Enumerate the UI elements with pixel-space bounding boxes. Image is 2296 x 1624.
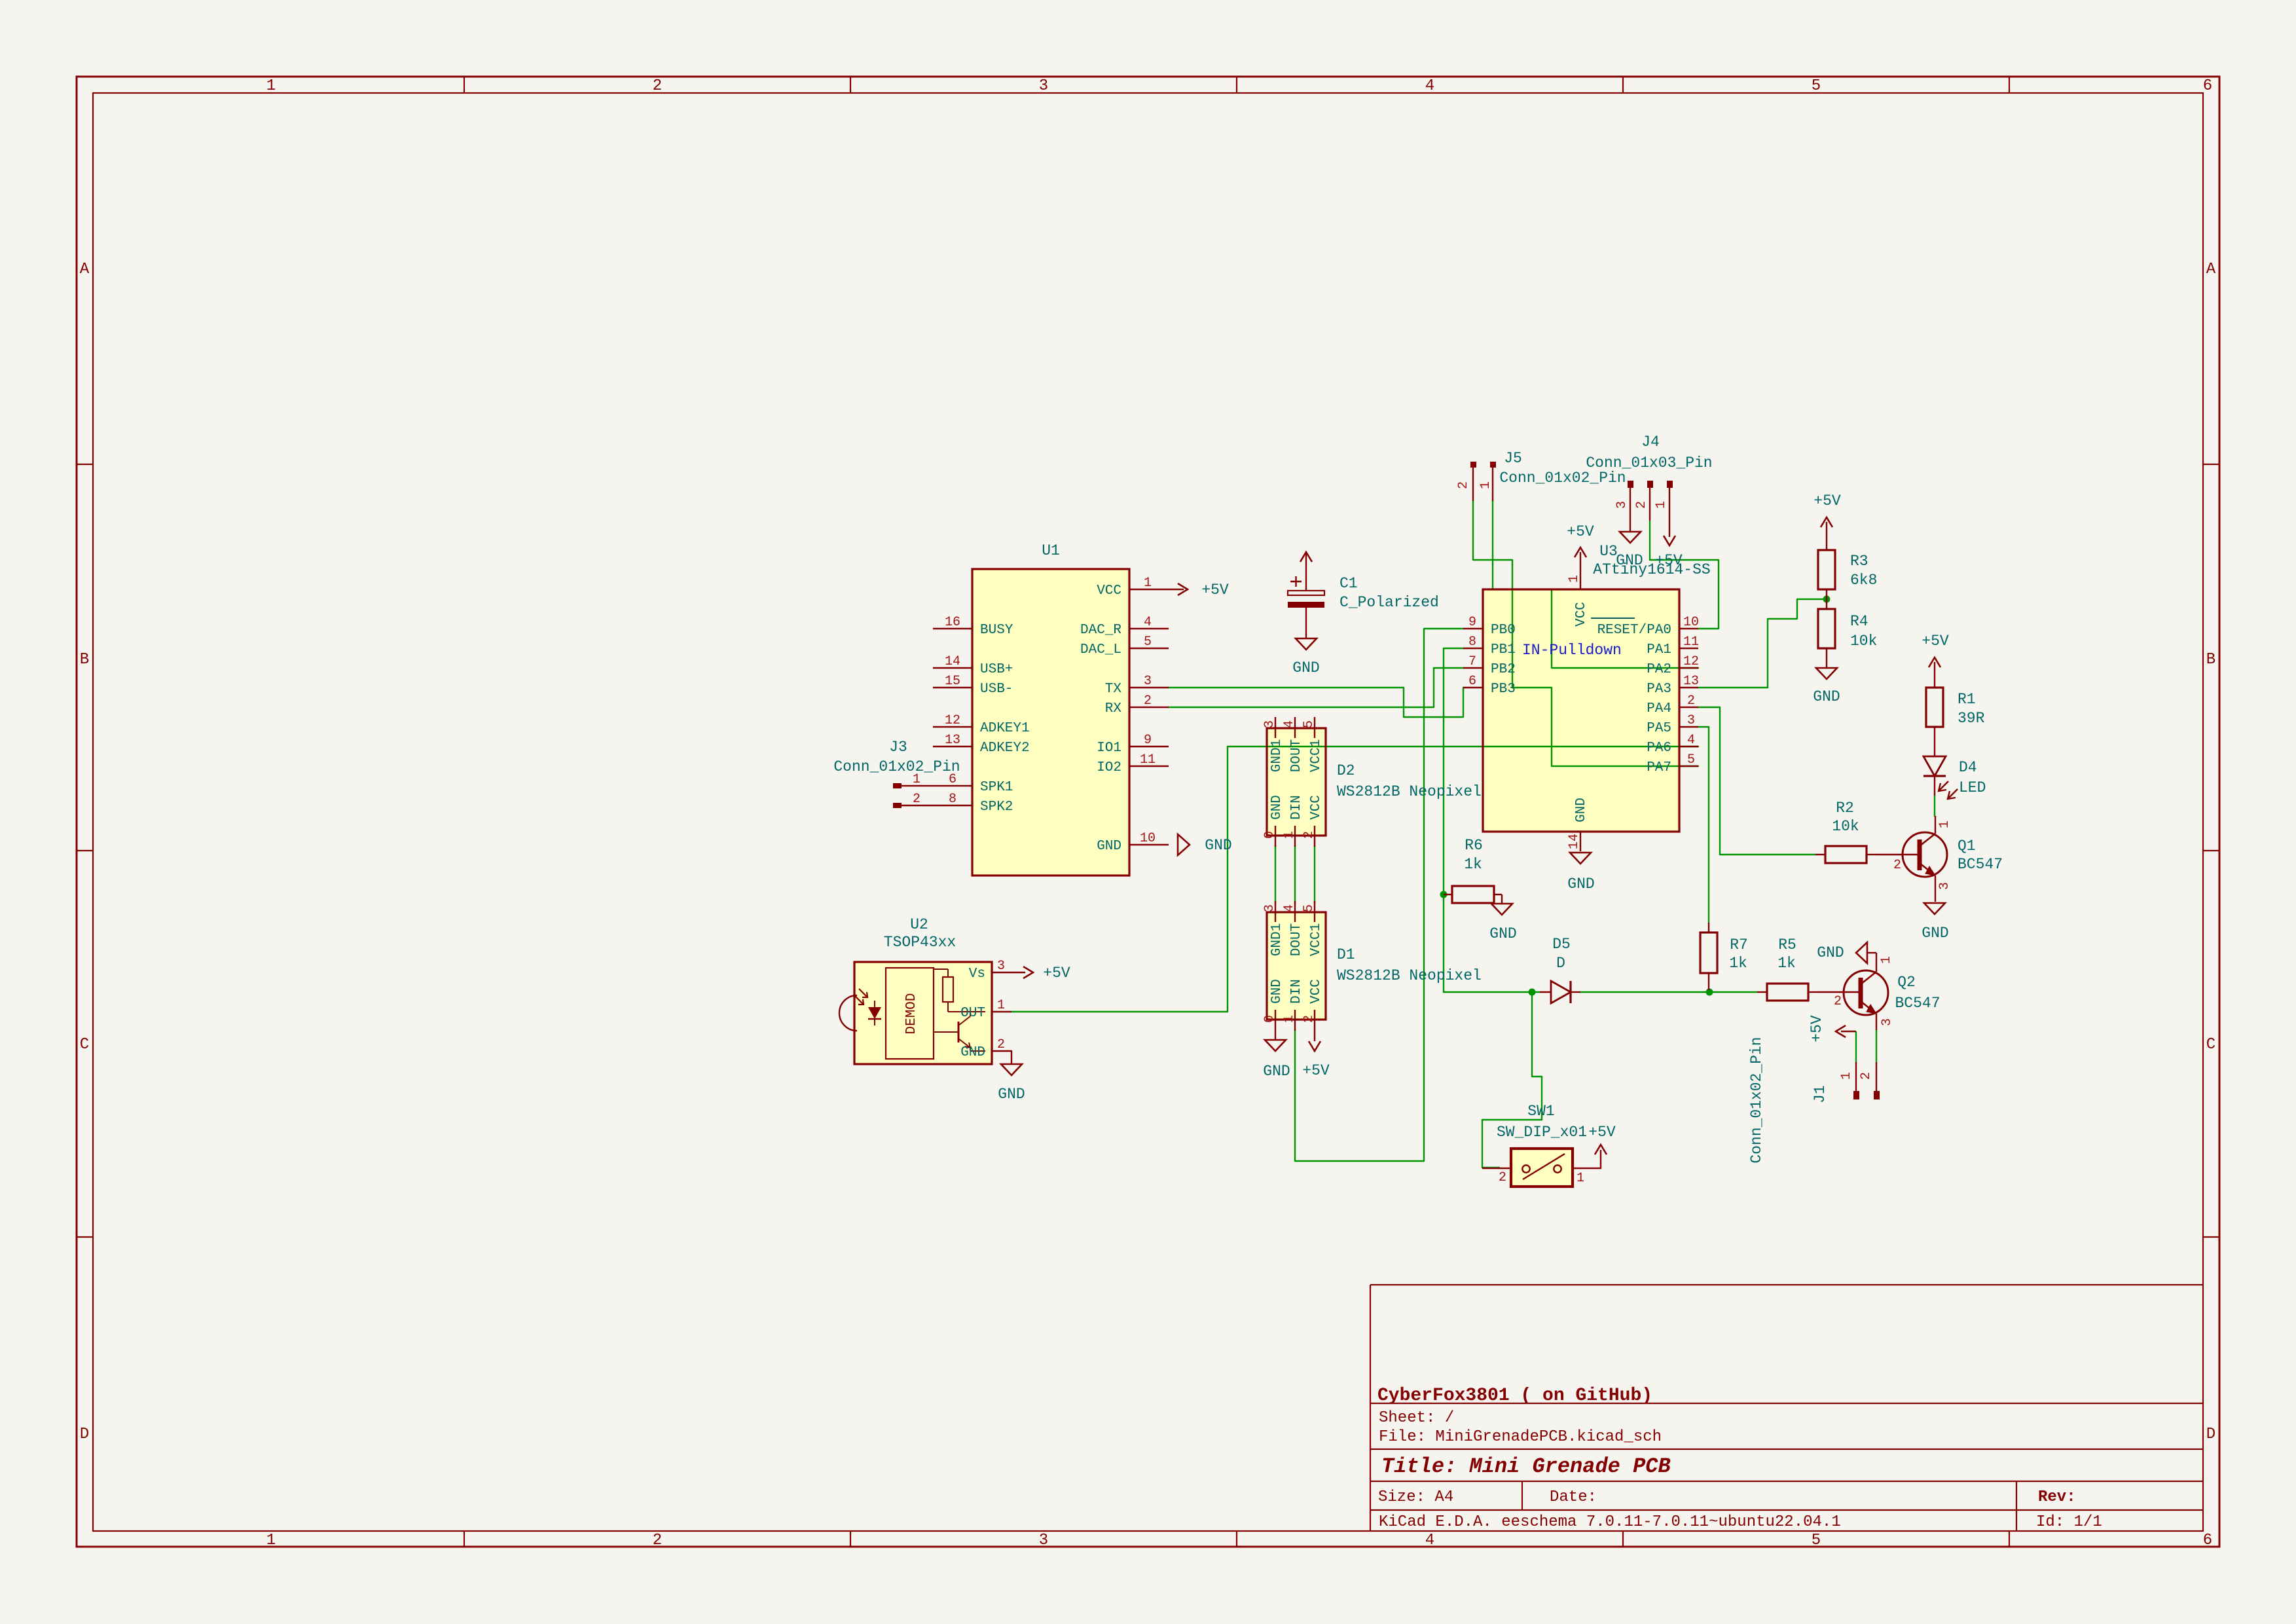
wire D2-D1 VCC link bbox=[1314, 845, 1315, 903]
svg-text:GND: GND bbox=[1567, 876, 1594, 893]
svg-text:13: 13 bbox=[1683, 674, 1699, 689]
svg-text:1: 1 bbox=[1654, 501, 1669, 509]
svg-text:8: 8 bbox=[949, 792, 957, 807]
svg-text:Date:: Date: bbox=[1550, 1488, 1597, 1506]
svg-text:3: 3 bbox=[1144, 674, 1152, 689]
svg-text:4: 4 bbox=[1282, 720, 1297, 728]
junction R7/R5 bbox=[1706, 989, 1713, 996]
svg-text:2: 2 bbox=[1859, 1072, 1874, 1080]
svg-text:39R: 39R bbox=[1958, 710, 1985, 727]
svg-text:1: 1 bbox=[1478, 481, 1493, 489]
svg-text:PB3: PB3 bbox=[1491, 682, 1516, 697]
svg-text:VCC: VCC bbox=[1574, 602, 1589, 627]
svg-text:RESET/PA0: RESET/PA0 bbox=[1597, 623, 1671, 638]
svg-text:LED: LED bbox=[1959, 779, 1986, 796]
svg-text:GND: GND bbox=[1269, 795, 1285, 820]
svg-text:IN-Pulldown: IN-Pulldown bbox=[1522, 642, 1622, 659]
svg-text:Conn_01x02_Pin: Conn_01x02_Pin bbox=[1748, 1037, 1765, 1163]
neopixel D2 bbox=[1262, 717, 1482, 847]
svg-text:WS2812B Neopixel: WS2812B Neopixel bbox=[1337, 783, 1482, 800]
svg-text:4: 4 bbox=[1425, 1532, 1434, 1549]
ground symbol below D1 bbox=[1263, 1031, 1290, 1080]
wire Q2 emitter to J1.2 bbox=[1876, 1030, 1877, 1062]
svg-text:J1: J1 bbox=[1812, 1085, 1829, 1103]
svg-text:3: 3 bbox=[1937, 882, 1952, 890]
svg-text:1: 1 bbox=[1282, 1015, 1297, 1023]
connector J1 bbox=[1748, 1037, 1880, 1163]
junction R6/PB1 bbox=[1440, 891, 1448, 898]
svg-text:+5V: +5V bbox=[1043, 965, 1070, 982]
svg-text:PB1: PB1 bbox=[1491, 642, 1516, 657]
svg-text:1: 1 bbox=[266, 1532, 276, 1549]
svg-text:Vs: Vs bbox=[969, 967, 985, 982]
wire J4.2 to U3.PA0 bbox=[1650, 521, 1719, 629]
resistor R4 bbox=[1818, 599, 1877, 668]
svg-text:TSOP43xx: TSOP43xx bbox=[884, 934, 956, 951]
svg-text:PB0: PB0 bbox=[1491, 623, 1516, 638]
svg-text:4: 4 bbox=[1687, 733, 1695, 748]
+5V symbol at J1.1 (left) bbox=[1808, 1015, 1856, 1043]
svg-text:IO2: IO2 bbox=[1097, 760, 1121, 775]
svg-text:10: 10 bbox=[1140, 831, 1156, 846]
svg-text:1: 1 bbox=[1282, 831, 1297, 839]
svg-text:2: 2 bbox=[997, 1037, 1005, 1052]
svg-text:C_Polarized: C_Polarized bbox=[1339, 594, 1439, 611]
svg-text:1: 1 bbox=[1567, 575, 1582, 583]
connector J4 bbox=[1586, 434, 1712, 537]
svg-text:DAC_R: DAC_R bbox=[1080, 623, 1121, 638]
wire J5.1 to U3.PA2 bbox=[1493, 501, 1698, 668]
svg-text:Conn_01x03_Pin: Conn_01x03_Pin bbox=[1586, 454, 1712, 471]
svg-text:PA6: PA6 bbox=[1647, 741, 1671, 756]
svg-text:PA4: PA4 bbox=[1647, 701, 1671, 716]
svg-text:GND: GND bbox=[1205, 837, 1231, 854]
neopixel D1 bbox=[1262, 901, 1482, 1031]
ground symbol at U2.GND bbox=[998, 1051, 1025, 1103]
svg-text:J3: J3 bbox=[889, 739, 907, 756]
+5V symbol at SW1.1 bbox=[1588, 1124, 1616, 1168]
svg-text:SW_DIP_x01: SW_DIP_x01 bbox=[1497, 1124, 1587, 1141]
title block bbox=[1370, 1285, 2203, 1531]
svg-text:GND: GND bbox=[1813, 688, 1840, 705]
svg-text:2: 2 bbox=[1687, 693, 1695, 709]
svg-text:+5V: +5V bbox=[1813, 492, 1841, 509]
svg-text:1: 1 bbox=[997, 998, 1005, 1013]
svg-text:3: 3 bbox=[1039, 1532, 1048, 1549]
svg-text:D1: D1 bbox=[1337, 946, 1355, 963]
svg-text:D: D bbox=[80, 1426, 89, 1443]
svg-text:C: C bbox=[2206, 1036, 2215, 1054]
svg-text:R1: R1 bbox=[1958, 691, 1976, 708]
switch SW1 SW_DIP_x01 bbox=[1482, 1103, 1601, 1187]
svg-text:Q2: Q2 bbox=[1897, 974, 1916, 991]
diode D5 bbox=[1540, 936, 1580, 1003]
svg-text:6: 6 bbox=[2203, 1532, 2212, 1549]
svg-text:Conn_01x02_Pin: Conn_01x02_Pin bbox=[1499, 470, 1626, 487]
svg-text:A: A bbox=[80, 261, 90, 278]
svg-text:ADKEY1: ADKEY1 bbox=[980, 721, 1030, 736]
svg-text:+5V: +5V bbox=[1588, 1124, 1616, 1141]
wire D5 cathode to R5 and R7 node bbox=[1580, 991, 1757, 993]
svg-text:OUT: OUT bbox=[960, 1006, 985, 1021]
svg-text:13: 13 bbox=[945, 733, 960, 748]
chip U1 body fill bbox=[972, 569, 1129, 876]
svg-text:PA5: PA5 bbox=[1647, 721, 1671, 736]
svg-text:8: 8 bbox=[1468, 635, 1476, 650]
wire D5 node to SW1 pin2 bbox=[1482, 992, 1542, 1168]
svg-text:D: D bbox=[1556, 955, 1565, 972]
svg-text:U2: U2 bbox=[910, 916, 928, 933]
+5V symbol at U2.Vs bbox=[1011, 965, 1070, 982]
svg-text:2: 2 bbox=[1634, 501, 1649, 509]
svg-text:0: 0 bbox=[1262, 831, 1277, 839]
resistor R5 bbox=[1757, 936, 1818, 1001]
svg-text:PA1: PA1 bbox=[1647, 642, 1671, 657]
svg-text:D: D bbox=[2206, 1426, 2215, 1443]
svg-text:DIN: DIN bbox=[1289, 795, 1304, 820]
svg-text:6k8: 6k8 bbox=[1850, 572, 1877, 589]
svg-text:5: 5 bbox=[1302, 904, 1317, 912]
svg-text:WS2812B Neopixel: WS2812B Neopixel bbox=[1337, 967, 1482, 984]
resistor R6 bbox=[1444, 837, 1502, 903]
wire D2-D1 GND link bbox=[1275, 845, 1276, 903]
svg-text:PA3: PA3 bbox=[1647, 682, 1671, 697]
svg-text:SPK2: SPK2 bbox=[980, 800, 1013, 815]
svg-text:5: 5 bbox=[1687, 752, 1695, 767]
svg-text:10: 10 bbox=[1683, 615, 1699, 630]
MCU U3 ATtiny1614-SS bbox=[1463, 543, 1711, 851]
svg-text:C1: C1 bbox=[1339, 575, 1358, 592]
svg-text:+5V: +5V bbox=[1922, 633, 1949, 650]
svg-text:D2: D2 bbox=[1337, 762, 1355, 779]
svg-text:10k: 10k bbox=[1850, 633, 1877, 650]
wire U3.PA5 to R7 bbox=[1698, 727, 1709, 923]
svg-text:PA2: PA2 bbox=[1647, 662, 1671, 677]
svg-text:2: 2 bbox=[653, 1532, 662, 1549]
ground symbol at J4.3 bbox=[1616, 532, 1643, 569]
svg-text:1: 1 bbox=[1879, 956, 1894, 964]
svg-text:12: 12 bbox=[945, 713, 960, 728]
+5V symbol below D1 (down) bbox=[1302, 1031, 1330, 1079]
svg-text:GND: GND bbox=[1616, 552, 1643, 569]
svg-text:5: 5 bbox=[1302, 720, 1317, 728]
svg-text:2: 2 bbox=[1834, 994, 1842, 1009]
svg-text:1k: 1k bbox=[1729, 955, 1747, 972]
connector J3 bbox=[833, 739, 960, 808]
MCU U3 body fill bbox=[1483, 589, 1679, 832]
svg-text:C: C bbox=[80, 1036, 89, 1054]
svg-text:IO1: IO1 bbox=[1097, 741, 1121, 756]
neopixel D1 body fill bbox=[1267, 912, 1326, 1020]
svg-text:D5: D5 bbox=[1552, 936, 1571, 953]
svg-text:6: 6 bbox=[1468, 674, 1476, 689]
svg-text:3: 3 bbox=[1262, 720, 1277, 728]
svg-text:+5V: +5V bbox=[1302, 1062, 1330, 1079]
svg-text:VCC: VCC bbox=[1309, 979, 1324, 1004]
chip U1 (DFPlayer-style) bbox=[933, 542, 1169, 876]
svg-text:ATtiny1614-SS: ATtiny1614-SS bbox=[1593, 561, 1710, 578]
connector J5 bbox=[1456, 450, 1626, 501]
ground symbol at U1.GND (right arrow) bbox=[1178, 834, 1232, 855]
+5V symbol above C1 bbox=[1300, 552, 1312, 562]
svg-text:5: 5 bbox=[1812, 1532, 1821, 1549]
svg-text:4: 4 bbox=[1144, 615, 1152, 630]
svg-text:R2: R2 bbox=[1836, 800, 1854, 817]
svg-text:1: 1 bbox=[1144, 576, 1152, 591]
svg-text:KiCad E.D.A. eeschema 7.0.11-: KiCad E.D.A. eeschema 7.0.11-7.0.11~ubun… bbox=[1379, 1513, 1841, 1531]
LED D4 bbox=[1923, 727, 1986, 799]
svg-text:GND: GND bbox=[1574, 798, 1589, 822]
svg-text:DIN: DIN bbox=[1289, 979, 1304, 1004]
ground symbol at R6 bbox=[1489, 895, 1516, 942]
svg-text:GND: GND bbox=[1292, 659, 1319, 676]
svg-text:1: 1 bbox=[1576, 1171, 1584, 1186]
svg-text:2: 2 bbox=[653, 77, 662, 95]
neopixel D2 body fill bbox=[1267, 728, 1326, 836]
svg-text:3: 3 bbox=[1880, 1018, 1895, 1026]
svg-text:2: 2 bbox=[1302, 1015, 1317, 1023]
svg-text:7: 7 bbox=[1468, 654, 1476, 669]
svg-text:DOUT: DOUT bbox=[1289, 739, 1304, 772]
svg-text:R5: R5 bbox=[1778, 936, 1796, 953]
svg-text:Size: A4: Size: A4 bbox=[1378, 1488, 1453, 1506]
svg-text:14: 14 bbox=[945, 654, 960, 669]
svg-text:GND: GND bbox=[1489, 925, 1516, 942]
svg-text:GND: GND bbox=[1097, 839, 1121, 854]
capacitor C1 (polarized) bbox=[1288, 553, 1439, 638]
svg-text:2: 2 bbox=[913, 792, 920, 807]
svg-text:1k: 1k bbox=[1777, 955, 1796, 972]
ground symbol below R4 bbox=[1813, 668, 1840, 705]
svg-text:11: 11 bbox=[1140, 752, 1156, 767]
svg-text:3: 3 bbox=[1687, 713, 1695, 728]
svg-text:Title: Mini Grenade PCB: Title: Mini Grenade PCB bbox=[1381, 1454, 1671, 1479]
wire U3.PA3 to R3/R4 divider bbox=[1698, 599, 1827, 688]
svg-text:1k: 1k bbox=[1464, 856, 1482, 873]
svg-text:16: 16 bbox=[945, 615, 960, 630]
svg-text:DAC_L: DAC_L bbox=[1080, 642, 1121, 657]
resistor R7 bbox=[1700, 923, 1748, 990]
svg-text:R3: R3 bbox=[1850, 553, 1868, 570]
svg-text:GND: GND bbox=[1817, 944, 1844, 961]
svg-text:4: 4 bbox=[1425, 77, 1434, 95]
svg-text:DEMOD: DEMOD bbox=[904, 993, 919, 1034]
svg-text:0: 0 bbox=[1262, 1015, 1277, 1023]
svg-text:File: MiniGrenadePCB.kicad_sch: File: MiniGrenadePCB.kicad_sch bbox=[1379, 1428, 1662, 1446]
svg-text:+5V: +5V bbox=[1808, 1015, 1825, 1043]
wire U3.PA4 to R2 bbox=[1698, 707, 1815, 855]
svg-text:J5: J5 bbox=[1504, 450, 1522, 467]
ground symbol below Q1 bbox=[1922, 903, 1948, 942]
svg-text:D4: D4 bbox=[1959, 759, 1977, 776]
svg-text:B: B bbox=[80, 651, 89, 669]
svg-text:2: 2 bbox=[1456, 481, 1471, 489]
svg-text:1: 1 bbox=[1937, 821, 1952, 828]
svg-text:Rev:: Rev: bbox=[2038, 1488, 2076, 1506]
wire U3.PB1 to R6/D5 node bbox=[1444, 648, 1463, 992]
svg-text:VCC: VCC bbox=[1309, 795, 1324, 820]
svg-text:B: B bbox=[2206, 651, 2215, 669]
svg-text:+5V: +5V bbox=[1655, 552, 1683, 569]
transistor Q2 BC547 bbox=[1818, 953, 1941, 1030]
svg-text:3: 3 bbox=[1262, 904, 1277, 912]
svg-text:3: 3 bbox=[997, 959, 1005, 974]
svg-text:10k: 10k bbox=[1832, 818, 1859, 835]
svg-text:2: 2 bbox=[1499, 1170, 1506, 1185]
svg-text:14: 14 bbox=[1567, 834, 1582, 849]
svg-text:GND1: GND1 bbox=[1269, 923, 1285, 956]
svg-text:SPK1: SPK1 bbox=[980, 780, 1013, 795]
+5V symbol above R1 bbox=[1922, 633, 1949, 667]
svg-text:DOUT: DOUT bbox=[1289, 923, 1304, 956]
svg-text:TX: TX bbox=[1105, 682, 1122, 697]
resistor R1 bbox=[1926, 662, 1985, 727]
wire R6 node to D5 anode bbox=[1444, 991, 1540, 993]
svg-text:GND: GND bbox=[1922, 925, 1948, 942]
svg-text:R6: R6 bbox=[1465, 837, 1483, 854]
svg-text:GND: GND bbox=[1269, 979, 1285, 1004]
svg-text:6: 6 bbox=[2203, 77, 2212, 95]
svg-text:Q1: Q1 bbox=[1958, 838, 1976, 855]
svg-text:VCC1: VCC1 bbox=[1309, 739, 1324, 772]
svg-text:GND1: GND1 bbox=[1269, 739, 1285, 772]
wire J5.2 to U3.PA7 (IN-Pulldown net) bbox=[1473, 501, 1698, 766]
svg-text:Id: 1/1: Id: 1/1 bbox=[2036, 1513, 2102, 1531]
+5V symbol above R3 bbox=[1813, 492, 1841, 527]
svg-text:VCC: VCC bbox=[1097, 583, 1121, 599]
+5V symbol at U3.VCC bbox=[1567, 523, 1594, 570]
svg-text:VCC1: VCC1 bbox=[1309, 923, 1324, 956]
svg-text:U1: U1 bbox=[1042, 542, 1060, 559]
svg-text:11: 11 bbox=[1683, 635, 1699, 650]
svg-text:9: 9 bbox=[1468, 615, 1476, 630]
svg-text:2: 2 bbox=[1144, 693, 1152, 709]
svg-text:GND: GND bbox=[960, 1045, 985, 1060]
wire U2.OUT to U3.PA6 bbox=[1011, 747, 1698, 1012]
svg-text:5: 5 bbox=[1812, 77, 1821, 95]
wire U1.RX to U3.PB2 bbox=[1169, 668, 1463, 707]
svg-text:J4: J4 bbox=[1641, 434, 1660, 451]
svg-text:SW1: SW1 bbox=[1527, 1103, 1554, 1120]
ground symbol at Q2 collector (left) bbox=[1817, 942, 1867, 963]
svg-text:A: A bbox=[2206, 261, 2216, 278]
svg-text:3: 3 bbox=[1039, 77, 1048, 95]
wire D4 cathode to Q1 collector bbox=[1934, 796, 1935, 816]
svg-text:Sheet: /: Sheet: / bbox=[1379, 1409, 1454, 1427]
svg-text:USB+: USB+ bbox=[980, 662, 1013, 677]
wire U3.PB0 to D1.DIN bbox=[1295, 629, 1463, 1161]
junction R3/R4/PA3 bbox=[1823, 596, 1831, 603]
svg-text:+5V: +5V bbox=[1567, 523, 1594, 540]
ground symbol below C1 bbox=[1292, 638, 1319, 676]
+5V symbol at U1.VCC bbox=[1169, 581, 1229, 599]
transistor Q1 BC547 bbox=[1876, 816, 2003, 902]
svg-text:5: 5 bbox=[1144, 635, 1152, 650]
svg-text:GND: GND bbox=[1263, 1063, 1290, 1080]
svg-text:PA7: PA7 bbox=[1647, 760, 1671, 775]
switch SW1 body fill bbox=[1511, 1149, 1573, 1187]
svg-text:1: 1 bbox=[1839, 1072, 1854, 1080]
svg-text:ADKEY2: ADKEY2 bbox=[980, 741, 1030, 756]
svg-text:CyberFox3801 ( on GitHub): CyberFox3801 ( on GitHub) bbox=[1377, 1386, 1652, 1406]
svg-text:4: 4 bbox=[1282, 904, 1297, 912]
svg-text:12: 12 bbox=[1683, 654, 1699, 669]
svg-text:RX: RX bbox=[1105, 701, 1122, 716]
svg-text:+5V: +5V bbox=[1201, 581, 1229, 599]
svg-text:BUSY: BUSY bbox=[980, 623, 1013, 638]
junction D5 anode/SW1 bbox=[1529, 989, 1536, 996]
resistor R3 bbox=[1818, 522, 1877, 599]
svg-text:BC547: BC547 bbox=[1895, 995, 1940, 1012]
ground symbol at U3.GND bbox=[1567, 853, 1594, 893]
svg-text:R7: R7 bbox=[1730, 936, 1748, 953]
svg-text:15: 15 bbox=[945, 674, 960, 689]
IR receiver U2 body fill bbox=[854, 962, 992, 1064]
svg-text:1: 1 bbox=[266, 77, 276, 95]
wire U1.TX to U3.PB3 bbox=[1169, 688, 1463, 717]
wire +5V to J1.1 bbox=[1855, 1032, 1857, 1062]
IR receiver U2 TSOP43xx bbox=[839, 916, 1011, 1064]
svg-text:3: 3 bbox=[1614, 501, 1630, 509]
svg-text:R4: R4 bbox=[1850, 613, 1868, 630]
wire D2-D1 DIN link bbox=[1294, 845, 1296, 903]
svg-text:9: 9 bbox=[1144, 733, 1152, 748]
svg-text:2: 2 bbox=[1302, 831, 1317, 839]
svg-text:USB-: USB- bbox=[980, 682, 1013, 697]
+5V symbol at J4.1 (down) bbox=[1655, 536, 1683, 569]
resistor R2 bbox=[1815, 800, 1876, 863]
svg-text:BC547: BC547 bbox=[1958, 856, 2003, 873]
svg-text:2: 2 bbox=[1893, 858, 1901, 873]
svg-text:U3: U3 bbox=[1599, 543, 1618, 560]
svg-text:PB2: PB2 bbox=[1491, 662, 1516, 677]
svg-text:GND: GND bbox=[998, 1086, 1025, 1103]
svg-text:Conn_01x02_Pin: Conn_01x02_Pin bbox=[833, 758, 960, 775]
